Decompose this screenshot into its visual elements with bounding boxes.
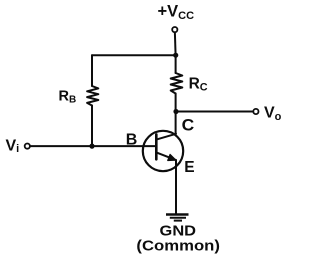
svg-text:C: C xyxy=(182,117,195,135)
svg-text:GND: GND xyxy=(160,223,197,240)
svg-text:+VCC: +VCC xyxy=(158,3,195,23)
svg-text:RC: RC xyxy=(189,75,208,93)
svg-text:B: B xyxy=(126,131,138,148)
svg-text:E: E xyxy=(184,159,194,176)
svg-text:(Common): (Common) xyxy=(136,239,220,255)
svg-text:Vi: Vi xyxy=(6,137,20,155)
svg-text:RB: RB xyxy=(59,88,77,105)
svg-text:Vo: Vo xyxy=(264,105,282,123)
